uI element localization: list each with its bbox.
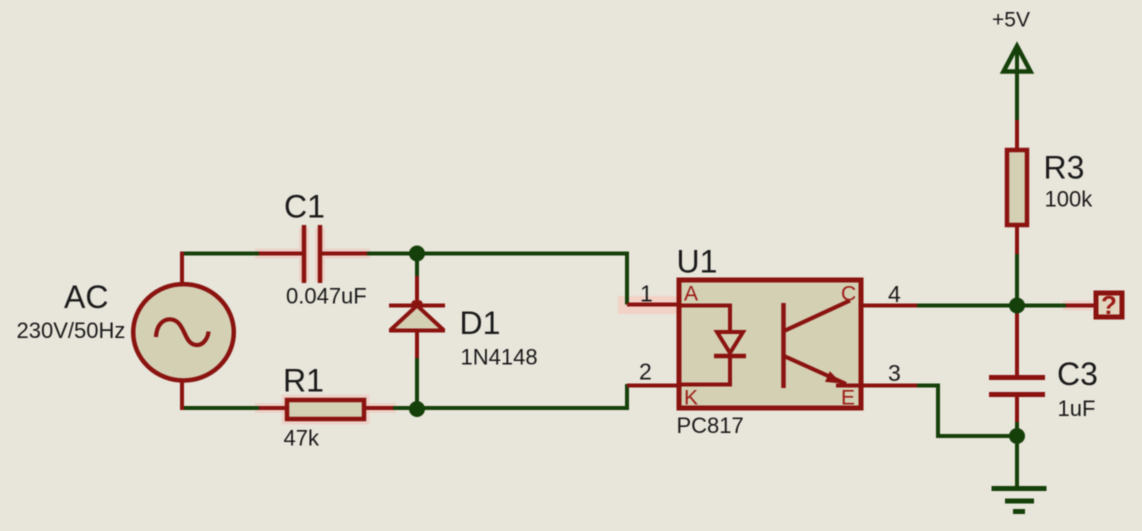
svg-text:R3: R3 [1044, 150, 1085, 186]
svg-text:?: ? [1101, 290, 1117, 320]
svg-text:K: K [684, 387, 698, 410]
svg-text:1: 1 [640, 281, 653, 307]
svg-text:230V/50Hz: 230V/50Hz [17, 318, 126, 343]
svg-text:R1: R1 [283, 363, 324, 399]
svg-text:2: 2 [639, 359, 652, 385]
svg-text:1N4148: 1N4148 [461, 345, 538, 370]
svg-text:D1: D1 [460, 305, 501, 341]
svg-text:+5V: +5V [992, 9, 1030, 32]
svg-text:47k: 47k [284, 426, 320, 451]
svg-text:AC: AC [64, 279, 108, 315]
svg-text:3: 3 [888, 360, 901, 386]
svg-text:C3: C3 [1057, 356, 1098, 392]
svg-text:PC817: PC817 [677, 413, 744, 438]
svg-text:4: 4 [888, 281, 901, 307]
svg-text:C: C [841, 283, 856, 306]
svg-text:A: A [684, 283, 698, 306]
svg-text:E: E [841, 387, 855, 410]
svg-text:0.047uF: 0.047uF [286, 284, 367, 309]
svg-text:1uF: 1uF [1058, 396, 1096, 421]
svg-text:100k: 100k [1045, 187, 1094, 212]
svg-text:U1: U1 [677, 244, 718, 280]
svg-text:C1: C1 [284, 189, 325, 225]
